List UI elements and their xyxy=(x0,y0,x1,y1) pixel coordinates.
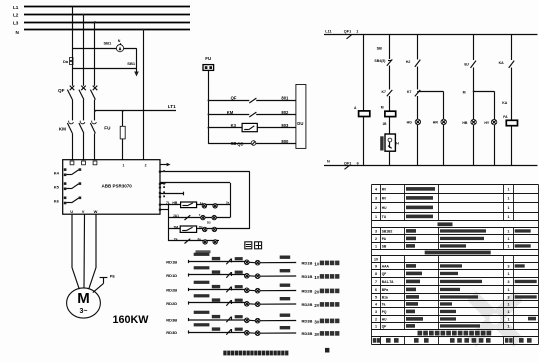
svg-text:8: 8 xyxy=(375,272,377,276)
svg-text:N: N xyxy=(118,39,121,43)
wire left bus xyxy=(168,205,170,241)
svg-text:L3: L3 xyxy=(13,20,19,25)
svg-text:1: 1 xyxy=(508,215,510,219)
label 2a xyxy=(226,200,230,204)
wire motor V xyxy=(83,214,86,288)
svg-text:W: W xyxy=(94,209,98,214)
svg-text:HJ: HJ xyxy=(406,60,411,64)
arrow down xyxy=(134,72,139,77)
contact K7 on branch 2 xyxy=(382,90,393,96)
svg-text:QF: QF xyxy=(58,88,65,93)
svg-text:802: 802 xyxy=(281,110,289,115)
wire phase C drop xyxy=(94,21,96,86)
svg-text:KM: KM xyxy=(59,127,66,132)
svg-text:2a: 2a xyxy=(226,200,230,204)
label shuoming xyxy=(245,242,262,249)
svg-text:BPa: BPa xyxy=(382,288,389,292)
svg-text:QF: QF xyxy=(382,272,387,276)
svg-text:3: 3 xyxy=(375,229,377,233)
svg-text:HR: HR xyxy=(433,121,439,125)
svg-text:RD3B: RD3B xyxy=(302,331,313,336)
svg-text:3: 3 xyxy=(508,295,510,299)
contactor KM xyxy=(59,121,97,160)
svg-text:7L: 7L xyxy=(166,201,170,205)
net L3 xyxy=(13,20,190,25)
svg-text:BA1-TA: BA1-TA xyxy=(382,280,394,284)
svg-text:HG: HG xyxy=(407,121,413,125)
pin stub y184.0 xyxy=(159,183,161,185)
contact KA xyxy=(499,61,515,68)
net L2 xyxy=(13,13,190,18)
svg-text:3~: 3~ xyxy=(80,308,88,315)
svg-text:2#: 2# xyxy=(314,303,320,308)
svg-text:1: 1 xyxy=(375,244,377,248)
svg-text:SB1: SB1 xyxy=(104,41,113,46)
rail L11 top xyxy=(324,30,538,39)
contact K7 branch 3 xyxy=(407,90,420,97)
svg-text:1: 1 xyxy=(508,302,510,306)
terminal 1L1 xyxy=(70,161,74,165)
svg-text:1#: 1# xyxy=(314,275,320,280)
circuit breaker QF xyxy=(58,86,97,121)
relay row 7a xyxy=(168,237,219,244)
svg-text:1: 1 xyxy=(375,215,377,219)
relay contact K5 xyxy=(54,182,81,190)
wire LT1 xyxy=(94,104,176,112)
soft-starter U1 ABB PSR3070 xyxy=(63,160,160,215)
svg-text:1: 1 xyxy=(508,288,510,292)
svg-text:6: 6 xyxy=(375,288,377,292)
svg-text:1: 1 xyxy=(508,196,510,200)
svg-text:KA: KA xyxy=(502,101,508,105)
svg-text:SB1B2: SB1B2 xyxy=(382,229,393,233)
svg-text:V: V xyxy=(82,209,85,214)
drawing title xyxy=(223,351,288,356)
svg-text:1: 1 xyxy=(123,164,125,168)
svg-text:2: 2 xyxy=(375,237,377,241)
node 803 row xyxy=(208,123,296,132)
net L1 xyxy=(13,5,190,10)
svg-text:Ta: Ta xyxy=(382,302,386,306)
terminal 3L2 xyxy=(82,161,86,165)
display unit DU xyxy=(296,85,306,149)
svg-text:10: 10 xyxy=(374,257,378,261)
svg-text:FU: FU xyxy=(205,56,211,61)
svg-text:3#: 3# xyxy=(314,332,320,337)
wire to lamp HY xyxy=(463,90,495,165)
motor M1 xyxy=(67,288,101,318)
svg-text:HU: HU xyxy=(382,206,387,210)
svg-text:FU: FU xyxy=(104,126,111,131)
wire feedback loop inner right xyxy=(230,183,232,218)
timer KT xyxy=(380,134,399,151)
wire bell branch right xyxy=(136,48,138,72)
svg-text:M: M xyxy=(381,106,384,110)
svg-text:1: 1 xyxy=(508,244,510,248)
lamp HB xyxy=(462,119,476,124)
svg-text:AAA: AAA xyxy=(382,264,390,268)
label SB1 lower xyxy=(127,61,136,66)
relay coil KA xyxy=(502,101,517,126)
svg-text:PA: PA xyxy=(382,237,387,241)
svg-text:K4: K4 xyxy=(54,171,60,176)
svg-text:7a: 7a xyxy=(174,237,178,241)
svg-text:QF: QF xyxy=(231,96,237,101)
branch wire 5 xyxy=(511,35,513,166)
pin arrow out xyxy=(160,163,171,167)
svg-text:803: 803 xyxy=(281,123,289,128)
svg-text:KM: KM xyxy=(227,110,234,115)
svg-text:160KW: 160KW xyxy=(113,314,150,326)
svg-text:SB: SB xyxy=(382,244,387,248)
svg-text:K6: K6 xyxy=(54,199,60,204)
svg-text:7N: 7N xyxy=(199,225,203,229)
svg-text:2: 2 xyxy=(375,206,377,210)
svg-text:1: 1 xyxy=(508,237,510,241)
svg-text:D2: D2 xyxy=(207,220,211,224)
svg-text:1: 1 xyxy=(508,310,510,314)
svg-text:K7: K7 xyxy=(407,90,412,94)
svg-text:RV: RV xyxy=(382,187,387,191)
pin stub y196.8 xyxy=(159,196,161,198)
fuse FU xyxy=(104,111,125,160)
lamp HG xyxy=(407,119,421,124)
wire feedback loop outer right xyxy=(249,172,251,229)
svg-text:B1a: B1a xyxy=(382,295,388,299)
net N xyxy=(16,30,191,35)
svg-text:1: 1 xyxy=(508,272,510,276)
svg-text:RD2B: RD2B xyxy=(302,289,313,294)
relay row 7M xyxy=(168,225,250,233)
svg-text:3a: 3a xyxy=(197,237,201,241)
svg-text:K3: K3 xyxy=(231,123,237,128)
svg-text:7: 7 xyxy=(375,280,377,284)
small mark xyxy=(325,348,329,353)
svg-text:M: M xyxy=(463,91,466,95)
terminal W xyxy=(94,209,98,214)
pin 2 xyxy=(145,164,147,168)
decorative watermark (not labelled further) xyxy=(467,291,523,347)
svg-text:RD2B: RD2B xyxy=(302,302,313,307)
wire DU feed bus xyxy=(208,70,210,144)
svg-text:KA: KA xyxy=(499,61,505,65)
fuse Da xyxy=(63,57,73,64)
svg-text:9: 9 xyxy=(375,264,377,268)
wire motor U xyxy=(72,214,79,289)
svg-text:Da: Da xyxy=(63,59,69,64)
svg-text:RD1B: RD1B xyxy=(302,274,313,279)
svg-text:RD1B: RD1B xyxy=(166,260,177,265)
BOM table contents xyxy=(373,187,537,343)
svg-text:1: 1 xyxy=(508,324,510,328)
pin stub y187.5 xyxy=(159,186,161,188)
relay contact K4 xyxy=(54,168,81,176)
svg-text:SB: SB xyxy=(377,46,383,50)
svg-text:801: 801 xyxy=(281,96,289,101)
terminal 5L3 xyxy=(93,161,97,165)
svg-text:6: 6 xyxy=(357,161,359,165)
wire phase A drop xyxy=(72,7,74,86)
thermistor row RD3B xyxy=(166,311,339,325)
svg-text:2: 2 xyxy=(375,317,377,321)
svg-text:FA: FA xyxy=(503,115,508,119)
BOM table grid xyxy=(372,185,539,345)
svg-text:SB4(5): SB4(5) xyxy=(374,59,385,63)
wire bell branch top xyxy=(72,48,137,50)
branch wire 2 xyxy=(389,35,391,166)
label note small xyxy=(196,250,211,253)
branch wire 3 xyxy=(417,35,419,166)
thermistor row RD2B xyxy=(166,281,339,295)
thermistor row RD1D xyxy=(166,266,339,280)
svg-text:U: U xyxy=(70,209,73,214)
svg-text:ABB PSR3070: ABB PSR3070 xyxy=(102,184,133,189)
svg-text:1B: 1B xyxy=(382,122,387,126)
svg-text:7M: 7M xyxy=(173,226,178,230)
svg-text:BJ: BJ xyxy=(464,62,469,66)
svg-text:1#: 1# xyxy=(314,262,320,267)
node 802 row xyxy=(208,110,296,117)
svg-text:3#: 3# xyxy=(314,320,320,325)
thermistor row RD3D xyxy=(166,323,339,337)
contact HJ xyxy=(406,60,420,67)
svg-text:DU: DU xyxy=(297,121,303,126)
svg-text:1: 1 xyxy=(508,187,510,191)
label 160KW xyxy=(113,314,150,326)
svg-text:K5: K5 xyxy=(54,185,60,190)
pin stub 183.5 xyxy=(160,183,166,185)
svg-text:QF1: QF1 xyxy=(344,161,351,165)
pin stub y209.7 xyxy=(159,209,161,211)
fuse FU2 xyxy=(203,56,214,70)
svg-text:L1: L1 xyxy=(13,5,19,10)
svg-text:3: 3 xyxy=(508,280,510,284)
wire pin stub 193 xyxy=(160,192,184,196)
svg-text:SB1: SB1 xyxy=(127,61,136,66)
branch wire 4 xyxy=(473,35,475,166)
svg-text:L11: L11 xyxy=(325,30,331,34)
svg-text:JA1: JA1 xyxy=(173,214,179,218)
pin number marks xyxy=(163,170,165,197)
contact BJ xyxy=(464,61,476,68)
svg-text:1: 1 xyxy=(356,30,358,34)
svg-text:HY: HY xyxy=(484,121,490,125)
wire motor W xyxy=(89,214,96,289)
thermistor row RD1B xyxy=(166,253,339,267)
relay coil K4 xyxy=(354,106,370,117)
svg-text:QF: QF xyxy=(382,324,387,328)
svg-text:RD2B: RD2B xyxy=(166,288,177,293)
svg-text:1: 1 xyxy=(375,324,377,328)
rail N bottom xyxy=(324,159,538,169)
svg-text:N: N xyxy=(327,159,330,163)
svg-text:4: 4 xyxy=(375,302,377,306)
pin stub y171.7 xyxy=(159,171,161,173)
svg-text:PQ: PQ xyxy=(382,310,387,314)
svg-text:3: 3 xyxy=(375,196,377,200)
svg-text:HB: HB xyxy=(172,201,177,205)
ground PE xyxy=(93,274,116,292)
svg-text:2#: 2# xyxy=(314,290,320,295)
wire to lamp 2 xyxy=(418,92,444,166)
svg-text:RD2D: RD2D xyxy=(166,301,177,306)
lamp HR xyxy=(433,119,447,124)
relay coil K5 xyxy=(381,106,396,127)
thermistor row RD2D xyxy=(166,294,339,308)
svg-text:L2: L2 xyxy=(13,13,19,18)
wire feedback loop inner top xyxy=(160,182,230,184)
svg-text:3: 3 xyxy=(375,310,377,314)
svg-text:1: 1 xyxy=(508,229,510,233)
svg-text:PE: PE xyxy=(110,274,116,278)
svg-text:RD1B: RD1B xyxy=(302,261,313,266)
bell HA1 xyxy=(104,39,124,52)
svg-text:2: 2 xyxy=(145,164,147,168)
svg-text:RV: RV xyxy=(382,196,387,200)
lamp HY xyxy=(484,119,496,124)
wire feedback loop outer top xyxy=(160,171,250,173)
svg-text:SB: SB xyxy=(231,141,237,146)
svg-text:M: M xyxy=(77,290,90,307)
wire phase B drop xyxy=(83,14,85,86)
svg-text:QF1: QF1 xyxy=(344,30,351,34)
svg-text:800: 800 xyxy=(281,139,289,144)
svg-text:1: 1 xyxy=(508,206,510,210)
pin stub y204.7 xyxy=(159,204,161,206)
svg-text:QD: QD xyxy=(237,142,243,147)
relay row JA1 xyxy=(168,213,230,224)
pin stub y193.0 xyxy=(159,192,161,194)
svg-text:4: 4 xyxy=(375,187,377,191)
pin 1 xyxy=(123,164,125,168)
relay row HB xyxy=(160,201,230,208)
svg-text:RD3B: RD3B xyxy=(302,319,313,324)
svg-text:RD3B: RD3B xyxy=(166,318,177,323)
pushbutton SB4 xyxy=(374,46,392,65)
branch wire 1 xyxy=(363,35,365,166)
node 801 row xyxy=(208,96,296,103)
wire neutral drop to terminal 2 xyxy=(142,29,144,160)
svg-text:K7: K7 xyxy=(382,90,387,94)
terminal V xyxy=(82,209,85,214)
terminal U xyxy=(70,209,73,214)
svg-text:TU: TU xyxy=(382,215,387,219)
node 800 row xyxy=(208,139,296,147)
svg-text:RD1D: RD1D xyxy=(166,273,177,278)
svg-text:LT1: LT1 xyxy=(168,104,176,109)
svg-text:1: 1 xyxy=(508,317,510,321)
svg-text:HU: HU xyxy=(382,317,387,321)
svg-text:3: 3 xyxy=(508,264,510,268)
relay contact K6 xyxy=(54,197,81,205)
svg-text:5: 5 xyxy=(375,295,377,299)
wire pin stub row xyxy=(160,209,168,211)
svg-text:RD3D: RD3D xyxy=(166,330,177,335)
wire bell branch bottom xyxy=(72,68,137,70)
svg-text:HB: HB xyxy=(462,121,468,125)
